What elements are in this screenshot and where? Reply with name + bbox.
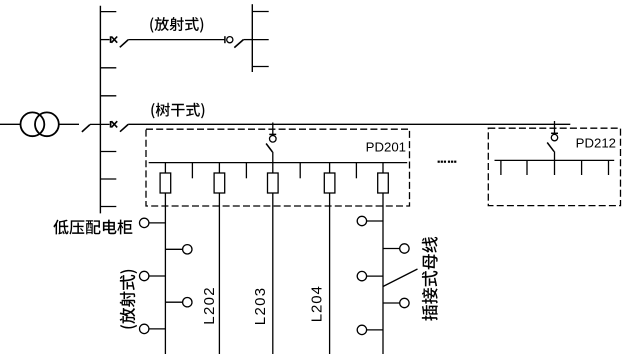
wire transformer to switch — [59, 123, 79, 125]
bus tick y11.6 — [100, 11, 116, 13]
PD212 feeder stub — [554, 160, 556, 175]
wire feeder right feeder — [382, 163, 384, 354]
wire to PD212 bus — [554, 151, 556, 160]
fuse/breaker unit left feeder — [160, 173, 171, 193]
label LV distribution cabinet — [53, 220, 132, 235]
bus tick y95.8 — [100, 95, 116, 97]
transformer T1 — [21, 112, 45, 136]
wire to PD201 bus — [272, 152, 274, 163]
busbar sub distribution — [251, 4, 253, 72]
bus tick — [252, 39, 268, 41]
wire incoming feeder — [0, 123, 21, 125]
PD212 feeder stub — [608, 160, 610, 175]
bus tick — [252, 66, 268, 68]
fuse/breaker unit L202 — [214, 173, 225, 193]
spare feeder stub — [245, 163, 247, 179]
circuit breaker QF2 — [110, 121, 112, 128]
wire trunk tap PD212 — [554, 121, 556, 133]
cabinet PD201 dashed outline — [146, 129, 410, 206]
disconnect switch blade — [120, 40, 128, 48]
label plug-in busway vertical — [422, 237, 438, 321]
switch blade PD201 — [266, 144, 272, 153]
disconnect switch blade — [120, 124, 128, 131]
disconnect switch blade 2 — [234, 40, 243, 48]
wire feeder L204 — [329, 163, 331, 354]
ellipsis dots — [438, 161, 440, 163]
svg-text:L202: L202 — [201, 286, 218, 325]
plug-in outlets left column — [140, 218, 149, 227]
plug contact circle PD201 — [270, 136, 277, 143]
wire trunk tap PD201 — [272, 123, 274, 135]
busbar main LV bus — [99, 6, 101, 214]
switch blade PD212 — [547, 143, 554, 152]
leader line busway label — [383, 269, 418, 287]
fuse/breaker unit right feeder — [378, 173, 389, 193]
spare feeder stub — [191, 163, 193, 179]
busbar PD212 internal — [495, 159, 615, 161]
label (radial) vertical — [120, 270, 137, 329]
plug contact circle — [227, 37, 233, 43]
plug contact circle PD212 — [551, 134, 557, 140]
bus tick y67.8 — [100, 67, 116, 69]
wire feeder left feeder — [164, 163, 166, 354]
wire feeder L202 — [218, 163, 220, 354]
circuit breaker QF1 — [110, 36, 112, 43]
wire radial feeder — [128, 39, 225, 41]
cabinet PD212 dashed outline — [488, 128, 620, 205]
busbar PD201 internal — [149, 162, 408, 164]
svg-text:L203: L203 — [252, 287, 269, 326]
bus tick y206.5 — [100, 206, 116, 208]
svg-text:PD212: PD212 — [576, 136, 616, 151]
plug-in outlets right column — [357, 216, 366, 225]
disconnect switch QS1 — [82, 125, 90, 132]
spare feeder stub — [299, 163, 301, 179]
bus tick y179.0 — [100, 178, 116, 180]
svg-text:PD201: PD201 — [366, 139, 406, 154]
spare feeder stub — [355, 163, 357, 179]
fuse/breaker unit L203 — [268, 173, 279, 193]
PD212 feeder stub — [581, 160, 583, 175]
wire to sub bus — [243, 39, 252, 41]
wire bus tap top branch — [100, 39, 109, 41]
PD212 feeder stub — [500, 160, 502, 175]
contact bar PD212 — [551, 132, 558, 134]
label (trunk) — [151, 103, 204, 119]
label (radial) top — [150, 17, 203, 33]
PD212 feeder stub — [526, 160, 528, 175]
contact bar PD201 — [269, 133, 276, 135]
bus tick y151.5 — [100, 151, 116, 153]
fuse/breaker unit L204 — [324, 173, 335, 193]
wire feeder L203 — [272, 163, 274, 354]
wire switch to bus — [90, 123, 110, 125]
wire trunk line — [128, 123, 570, 125]
bus tick — [252, 11, 268, 13]
svg-text:L204: L204 — [309, 285, 326, 322]
contact bar — [224, 36, 226, 43]
